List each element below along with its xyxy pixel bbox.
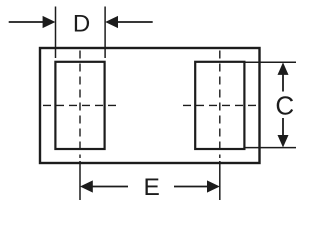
svg-text:E: E <box>144 174 160 200</box>
svg-text:D: D <box>73 11 90 38</box>
svg-text:C: C <box>275 91 294 121</box>
